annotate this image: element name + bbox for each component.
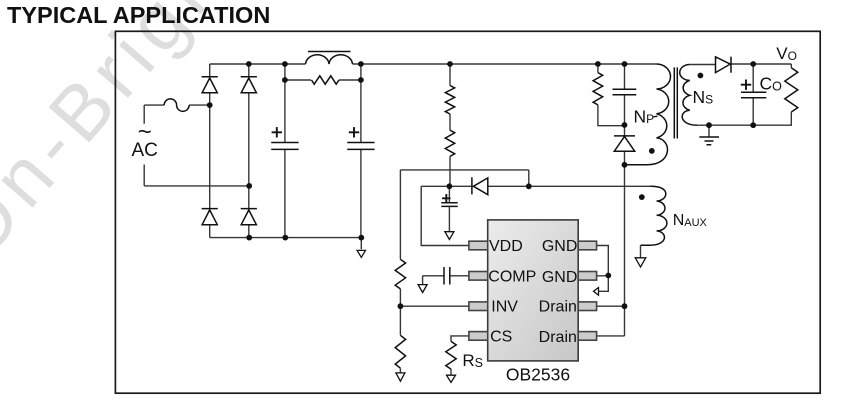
svg-text:~: ~ — [138, 119, 152, 146]
svg-text:COMP: COMP — [488, 269, 536, 286]
svg-text:OB2536: OB2536 — [506, 365, 570, 385]
svg-text:INV: INV — [491, 299, 518, 316]
svg-text:Drain: Drain — [539, 298, 577, 315]
svg-text:GND: GND — [542, 269, 578, 286]
svg-text:TYPICAL APPLICATION: TYPICAL APPLICATION — [7, 2, 270, 28]
svg-text:CS: CS — [490, 328, 512, 345]
svg-text:GND: GND — [542, 238, 578, 255]
svg-text:VDD: VDD — [489, 238, 523, 255]
svg-text:Drain: Drain — [539, 329, 577, 346]
